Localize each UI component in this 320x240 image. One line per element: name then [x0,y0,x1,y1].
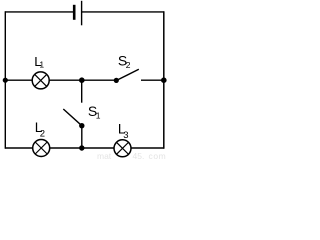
wire middle left (node to lamp L1) [5,79,32,81]
wire bottom-center segment (L2 to L3) [50,147,114,149]
battery B1 short thick plate [73,5,76,20]
battery B1 long thin plate [81,1,83,26]
wire top-left segment [5,11,73,13]
node middle-left junction dot [3,78,8,83]
svg-text:45.: 45. [133,151,145,160]
switch S1 pivot dot [79,123,84,128]
wire S1 bottom segment [81,126,83,149]
svg-text:2: 2 [126,60,131,70]
wire left vertical [4,11,6,148]
svg-text:mat: mat [97,151,112,160]
wire middle right (S2 to right rail) [141,79,164,81]
label S1 [88,103,101,121]
node middle-right junction dot [161,77,167,83]
lamp L1 [32,72,49,89]
label L3 [118,122,129,141]
switch S2 lever [116,69,139,80]
node middle S1-branch junction dot [79,77,85,83]
node bottom S1-branch junction dot [79,145,84,150]
wire right vertical [163,11,165,148]
lamp L2 [33,140,50,157]
svg-text:1: 1 [39,59,44,69]
lamp L3 [114,140,131,157]
wire S1 top contact [81,80,83,103]
label S2 [118,52,131,69]
svg-text:2: 2 [40,129,45,140]
wire bottom-left segment [5,147,32,149]
wire middle center (L1 to switch S2) [49,79,116,81]
svg-text:3: 3 [123,130,128,141]
label L1 [34,54,44,70]
label L2 [35,120,45,139]
wire top-right segment [82,11,164,13]
switch S1 lever [63,109,82,126]
switch S2 pivot dot [114,78,119,83]
wire bottom-right segment [131,147,164,149]
svg-text:1: 1 [96,111,101,121]
svg-text:com: com [149,151,167,160]
